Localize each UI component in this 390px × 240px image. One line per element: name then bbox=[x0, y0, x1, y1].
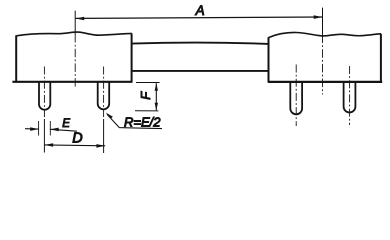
svg-text:A: A bbox=[195, 3, 205, 18]
R=E/2 label bbox=[124, 115, 161, 130]
dimension F line and arrows bbox=[155, 83, 158, 110]
pin P2 (left block, right) bbox=[98, 81, 110, 109]
pin P3 (right block, left) bbox=[290, 81, 302, 114]
dimension F extension lines bbox=[135, 83, 160, 111]
connecting bar bbox=[132, 43, 269, 71]
dimension A label bbox=[195, 3, 205, 18]
dimension E extension lines bbox=[39, 121, 51, 136]
pin P1 centerline bbox=[43, 67, 45, 153]
pin P4 centerline bbox=[349, 66, 351, 125]
left block centerline / A extension line bbox=[74, 11, 76, 89]
svg-text:R=E/2: R=E/2 bbox=[124, 115, 161, 130]
pin P1 (left block, left) bbox=[39, 81, 50, 110]
dimension D line and arrows bbox=[44, 143, 105, 148]
pin P2 centerline bbox=[103, 67, 105, 154]
svg-text:E: E bbox=[62, 117, 70, 130]
leader line for R=E/2 bbox=[106, 113, 162, 129]
dimension A line bbox=[76, 15, 323, 20]
pin P4 (right block, right) bbox=[344, 81, 356, 112]
svg-text:D: D bbox=[72, 131, 82, 147]
pin P3 centerline bbox=[295, 65, 297, 127]
svg-text:F: F bbox=[138, 91, 153, 100]
left block body bbox=[12, 32, 131, 83]
dimension E line and arrows bbox=[25, 127, 77, 131]
right block body bbox=[268, 32, 382, 82]
dimension E label bbox=[62, 117, 70, 130]
dimension D label bbox=[72, 131, 82, 147]
dimension F label bbox=[138, 91, 153, 100]
right block centerline / A extension line bbox=[322, 8, 324, 95]
